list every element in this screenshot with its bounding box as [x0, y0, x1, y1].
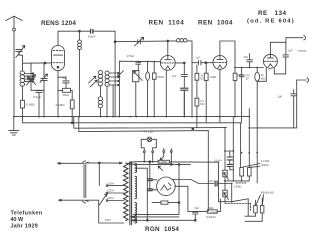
- svg-text:(30kΩ): (30kΩ): [261, 163, 269, 167]
- node lamp junctions: [143, 161, 153, 163]
- resistor R8 1M: [204, 63, 208, 123]
- wire V2 cathode: [165, 70, 167, 117]
- heater feed arrow: [128, 162, 135, 165]
- svg-text:2µF: 2µF: [278, 94, 283, 98]
- wire speaker return: [249, 80, 296, 128]
- svg-text:1µF: 1µF: [172, 74, 177, 78]
- wire B2 column down: [240, 123, 242, 168]
- capacitor C8 1uF: [181, 63, 187, 87]
- resistor R5 2M: [152, 62, 156, 117]
- svg-text:220V≈: 220V≈: [107, 196, 115, 200]
- svg-text:≈4V 0,3A: ≈4V 0,3A: [143, 129, 154, 133]
- tube V4 RE 134: [263, 54, 277, 68]
- svg-text:1MΩ: 1MΩ: [210, 75, 217, 79]
- svg-text:275µF: 275µF: [127, 54, 135, 58]
- svg-text:110V≈: 110V≈: [107, 181, 115, 185]
- svg-text:6µF: 6µF: [244, 55, 249, 59]
- svg-text:0,1µF: 0,1µF: [33, 95, 41, 99]
- wire filament line A: [133, 213, 179, 215]
- transformer T1 primary winding: [124, 163, 128, 221]
- potentiometer P2: [223, 170, 229, 190]
- wire filament arrow C: [132, 219, 196, 222]
- trimmer capacitor C3: [40, 63, 48, 117]
- tube V4 grid dashed: [264, 60, 276, 62]
- svg-text:(100kΩ): (100kΩ): [206, 215, 215, 219]
- resistor R1 0.1 MOhm: [21, 100, 25, 116]
- wire grid line RE134: [235, 67, 263, 69]
- node grid junctions: [137, 61, 155, 63]
- resistor R3 0.1M: [70, 90, 74, 122]
- hum potentiometer 0.05k: [158, 160, 169, 163]
- coupling coil assembly primary: [98, 71, 102, 97]
- band switch arrow right: [118, 71, 124, 77]
- node grid junction: [44, 62, 46, 64]
- speaker jack 2: [307, 78, 309, 82]
- plate coil L6: [177, 39, 192, 117]
- capacitor C9: [181, 88, 188, 116]
- tube V5 filament: [161, 185, 168, 190]
- node grid REN1004: [205, 62, 207, 64]
- resistor R2 50k: [58, 88, 72, 92]
- leader lines R14 R15: [256, 195, 264, 205]
- svg-text:20kΩ: 20kΩ: [208, 206, 214, 210]
- tube V1 anode: [54, 54, 63, 56]
- capacitor C15 2uF: [193, 211, 198, 220]
- antenna insulator circle: [13, 28, 16, 31]
- node line2 junction: [178, 164, 180, 166]
- dashed link upper: [236, 182, 246, 184]
- svg-text:(2MΩ): (2MΩ): [210, 210, 217, 214]
- node centre tap: [146, 219, 148, 221]
- capacitor C4 550pF: [91, 29, 93, 33]
- resistor R12 0.3M: [240, 168, 244, 181]
- svg-text:0,3 MΩ: 0,3 MΩ: [261, 159, 269, 163]
- svg-text:µF: µF: [246, 77, 249, 81]
- antenna series capacitor: [16, 50, 23, 64]
- node pots bottom: [224, 183, 233, 203]
- tube V3 heater: [218, 65, 222, 68]
- variable capacitor C6 series: [134, 37, 143, 46]
- svg-text:0,1MΩ: 0,1MΩ: [56, 103, 66, 107]
- node bus B1 junctions: [13, 116, 236, 118]
- wire V4 anode top: [270, 42, 286, 54]
- node L3 junction: [192, 128, 194, 130]
- wire heater line L4: [79, 117, 209, 212]
- svg-text:(od. RE 604): (od. RE 604): [247, 19, 295, 25]
- wire C4 to coupling column: [93, 31, 115, 116]
- capacitor C2 0.1 uF: [36, 91, 42, 117]
- grid coil L5: [98, 97, 102, 117]
- tube V1 RENS 1204 envelope: [52, 46, 65, 71]
- transformer primary taps: [106, 185, 124, 202]
- wire HT centre tap: [135, 168, 148, 220]
- tube V5 anode tick: [168, 183, 171, 190]
- svg-text:2MΩ: 2MΩ: [157, 75, 164, 79]
- svg-text:50kΩ(4 kΩ): 50kΩ(4 kΩ): [261, 191, 274, 195]
- wire filament arrow B: [131, 216, 179, 219]
- node bus B2 junction: [71, 122, 73, 124]
- wire V4 cathode pins: [257, 67, 274, 81]
- speaker jack 1: [304, 36, 306, 40]
- filter choke resistor: [152, 201, 179, 204]
- resistor R11 20k: [188, 199, 221, 213]
- node grid junctions RE134: [234, 67, 258, 69]
- tube V5 RGN 1054: [157, 177, 176, 196]
- svg-text:50kΩ: 50kΩ: [63, 93, 69, 97]
- tube V1 grid2 dashed: [53, 62, 63, 64]
- wire filament line 2: [135, 163, 191, 165]
- tuning capacitor C1 variable: [27, 63, 36, 90]
- node resistor bottoms: [224, 180, 242, 182]
- leader lines R12 R13: [243, 164, 260, 168]
- wire V1 cathode to bus: [57, 71, 59, 117]
- antenna range switch arrow: [16, 46, 25, 58]
- svg-text:RE 134: RE 134: [258, 10, 287, 17]
- hum pot lower wiper: [158, 166, 162, 171]
- tube V3 grid dashed: [214, 61, 226, 63]
- node V2 top: [167, 40, 169, 42]
- wire bus B2: [23, 117, 241, 123]
- tube V3 REN 1004: [213, 56, 227, 70]
- capacitor C7 275pF: [136, 62, 141, 70]
- wire V2 anode right: [175, 62, 184, 64]
- svg-text:0,1µF≈: 0,1µF≈: [214, 159, 223, 163]
- wire column B1 end down: [232, 117, 234, 181]
- antenna coil L1: [20, 63, 25, 100]
- wire L3 column down to pots: [224, 128, 226, 171]
- wire line2 to choke column: [178, 164, 180, 214]
- dashed link volume to switch: [225, 204, 251, 211]
- svg-text:40 W: 40 W: [11, 217, 24, 223]
- wire V1 anode to top: [58, 31, 90, 45]
- band switch arrow left b: [90, 80, 97, 87]
- capacitor C13 2uF speaker: [274, 55, 288, 74]
- svg-text:220V: 220V: [105, 218, 111, 222]
- wire filament line 1: [135, 161, 159, 163]
- tube V3 anode bar: [217, 56, 223, 60]
- mains switch: [83, 161, 89, 203]
- svg-text:125V≈: 125V≈: [107, 189, 115, 193]
- capacitor C12 6uF: [247, 54, 253, 68]
- potentiometer P1 regeneration: [133, 71, 143, 117]
- resistor R4 oval: [146, 62, 150, 117]
- tube V2 anode bar: [165, 56, 172, 60]
- svg-text:kΩ: kΩ: [200, 77, 203, 81]
- wire V3 cathode: [219, 69, 221, 123]
- wire heater line L3: [74, 117, 227, 129]
- potentiometer P3: [223, 190, 229, 202]
- ground: [9, 117, 19, 135]
- wire speaker terminal 1: [286, 38, 303, 43]
- svg-text:2µF: 2µF: [288, 48, 293, 52]
- coupling coil assembly secondary: [105, 71, 109, 117]
- anode choke L2: [78, 31, 82, 116]
- wire coil column: [112, 85, 114, 117]
- resistor R14 50k: [254, 200, 258, 216]
- wire hum pot to divider column: [170, 162, 219, 202]
- resistor R6 10k: [195, 65, 199, 98]
- svg-text:2µF≈: 2µF≈: [208, 179, 215, 183]
- capacitor C17 0.1uF upper: [227, 157, 232, 160]
- resistor R10 20M: [255, 68, 260, 184]
- wire cap link: [225, 151, 233, 170]
- wire screen branch: [58, 77, 66, 80]
- band switch arrow left a: [89, 76, 96, 83]
- transformer T1 core: [130, 162, 132, 225]
- capacitor C16 2uF series: [215, 181, 217, 186]
- svg-text:MΩ: MΩ: [261, 76, 265, 80]
- capacitor C14 2uF: [291, 90, 297, 128]
- node anode cap top: [149, 161, 151, 163]
- terminal T3: [160, 149, 165, 161]
- wire V3 anode to top: [220, 41, 235, 73]
- wire antenna lead-in: [13, 16, 15, 116]
- tube V2 heater: [166, 66, 170, 69]
- node filament C junction: [194, 219, 196, 221]
- svg-text:REN 1104: REN 1104: [149, 20, 185, 27]
- resistor R13 0.3M: [248, 168, 252, 181]
- wire cap C1 bottom: [31, 89, 44, 91]
- capacitor C11 275uF: [239, 68, 244, 123]
- rectifier anode capacitors: [148, 162, 158, 191]
- tube V1 grid dashed: [53, 50, 63, 52]
- svg-text:0,1MΩ: 0,1MΩ: [26, 103, 36, 107]
- wire right pot column: [231, 184, 233, 202]
- dial lamp: [141, 137, 156, 162]
- svg-text:Jahr 1929: Jahr 1929: [11, 224, 39, 230]
- coil L1 taps: [25, 73, 34, 83]
- wire B1 end column: [248, 109, 250, 168]
- svg-text:6µF: 6µF: [62, 76, 67, 80]
- wire switch to selector: [86, 162, 124, 223]
- wire speaker terminal 2: [297, 79, 306, 81]
- node column junctions: [224, 116, 258, 154]
- wire V5 output right: [173, 180, 232, 184]
- tube V2 grid dashed: [162, 62, 175, 64]
- coil taps: [109, 72, 119, 85]
- wire grid line of RENS 1204: [23, 62, 52, 64]
- svg-text:550µF: 550µF: [88, 34, 96, 38]
- svg-text:RGN 1054: RGN 1054: [145, 226, 179, 233]
- wire grid line REN1104: [119, 61, 160, 116]
- svg-text:Lautspr.: Lautspr.: [298, 48, 308, 52]
- antenna: [6, 16, 23, 21]
- resistor R15 4k: [245, 198, 264, 221]
- svg-text:Telefunken: Telefunken: [11, 211, 43, 217]
- svg-text:RENS 1204: RENS 1204: [41, 20, 76, 27]
- resistor R7 0.1M: [195, 98, 199, 127]
- capacitor C5 6uF: [63, 81, 69, 88]
- capacitor C10 1uF coupling: [192, 60, 213, 65]
- svg-text:MΩ: MΩ: [200, 102, 204, 106]
- transformer T1 secondary windings: [135, 163, 137, 223]
- wire resistor bottoms: [225, 180, 249, 182]
- wire pots bottom: [219, 199, 256, 217]
- svg-text:2µF: 2µF: [195, 206, 200, 210]
- svg-text:2,5MΩ: 2,5MΩ: [234, 185, 242, 189]
- wire plate line top: [115, 40, 176, 43]
- node anode junction: [79, 30, 81, 32]
- tube V4 anode bar: [267, 54, 273, 58]
- mains input arrows: [58, 162, 85, 201]
- capacitor C18 0.1uF lower: [227, 164, 232, 166]
- terminal T4: [170, 149, 172, 166]
- tube V2 REN 1104: [160, 56, 175, 71]
- tube V4 heater: [268, 64, 272, 67]
- svg-text:1µF: 1µF: [195, 56, 200, 60]
- node anode RC: [183, 62, 185, 64]
- wire V5 lower right: [175, 186, 188, 211]
- wave switch arrow on L1: [28, 76, 36, 85]
- tube V1 cathode dot: [57, 66, 59, 68]
- wire bus B1 cathode rail: [14, 116, 249, 118]
- resistor R9 2M: [233, 73, 237, 116]
- svg-text:REN 1004: REN 1004: [198, 20, 233, 27]
- wire V2 anode top: [167, 41, 169, 56]
- node top junction: [114, 41, 116, 43]
- voltage selector arrow: [99, 194, 107, 206]
